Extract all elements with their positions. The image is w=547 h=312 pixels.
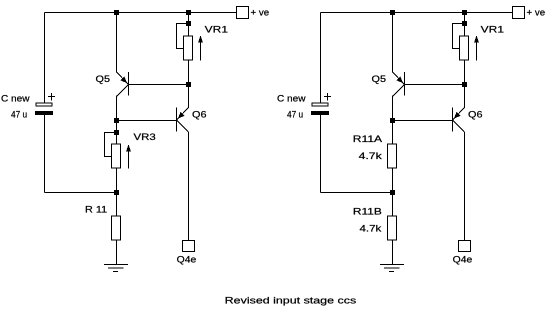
svg-text:C new: C new	[1, 94, 30, 104]
svg-text:R11B: R11B	[353, 207, 382, 217]
wire: Q5 collector down (right)	[392, 96, 394, 145]
wire: node A down to Q6 emitter (left)	[188, 85, 190, 108]
wire: rail down to capacitor Cnew (right)	[320, 13, 322, 103]
wire: capacitor to lower node (left)	[44, 115, 46, 193]
wire: Q6 collector down to Q4e (left)	[188, 132, 190, 240]
wire: +ve supply rail top (left)	[45, 12, 237, 14]
svg-text:R11A: R11A	[353, 134, 382, 144]
node A: base/emitter junction (left)	[186, 82, 191, 87]
wire: Q5 emitter from rail (left)	[116, 13, 118, 73]
svg-text:47 u: 47 u	[11, 109, 27, 119]
svg-text:Q5: Q5	[96, 74, 111, 84]
terminal box Q4e (right)	[453, 241, 473, 265]
node: collector/base junction (left)	[114, 118, 119, 123]
svg-text:Q4e: Q4e	[177, 255, 197, 265]
wire: junction to R11	[116, 193, 118, 217]
ground (right)	[380, 265, 404, 272]
wire: R11A bottom	[392, 169, 394, 193]
wire: Q5 collector down (left)	[116, 96, 118, 145]
svg-text:VR3: VR3	[134, 132, 156, 142]
wire: bottom horizontal to resistor chain (right)	[321, 192, 393, 194]
wire: Q5 emitter from rail (right)	[392, 13, 394, 73]
node: rail/VR1 junction (left)	[186, 10, 191, 15]
transistor Q5 (PNP) (left)	[96, 72, 129, 97]
wire: capacitor to lower node (right)	[320, 115, 322, 193]
transistor Q6 (PNP) (left)	[177, 108, 207, 133]
wire: Q5 base to node A (right)	[405, 84, 465, 86]
wire: Q6 base (left)	[117, 120, 177, 122]
svg-text:Q5: Q5	[372, 74, 387, 84]
transistor Q6 (PNP) (right)	[453, 108, 483, 133]
terminal box Q4e (left)	[177, 241, 197, 265]
potentiometer VR1 (left)	[177, 24, 229, 61]
node: collector/base junction (right)	[390, 118, 395, 123]
wire: Q6 base (right)	[393, 120, 453, 122]
svg-text:Q4e: Q4e	[453, 255, 473, 265]
capacitor Cnew 47u (left)	[1, 93, 55, 119]
resistor R11A 4.7k	[353, 134, 397, 168]
terminal box +ve (right)	[513, 7, 546, 19]
ground (left)	[104, 265, 128, 272]
wire: +ve supply rail top (right)	[321, 12, 513, 14]
wire: VR1 top (right)	[464, 13, 466, 37]
node A: base/emitter junction (right)	[462, 82, 467, 87]
wire: R11 to ground	[116, 240, 118, 265]
wire: rail down to capacitor Cnew (left)	[44, 13, 46, 103]
capacitor Cnew 47u (right)	[277, 93, 331, 119]
svg-text:Revised input stage ccs: Revised input stage ccs	[225, 296, 357, 306]
node: rail/Q5-emitter junction (right)	[390, 10, 395, 15]
svg-text:+ ve: + ve	[527, 8, 546, 18]
svg-text:47 u: 47 u	[287, 109, 303, 119]
node: rail/VR1 junction (right)	[462, 10, 467, 15]
wire: R11B to ground	[392, 240, 394, 265]
node: cap return junction	[114, 190, 119, 195]
node: cap return junction (right)	[390, 190, 395, 195]
svg-text:Q6: Q6	[192, 109, 207, 119]
node: VR1 wiper tie (right)	[462, 21, 467, 26]
svg-text:4.7k: 4.7k	[359, 151, 383, 161]
svg-text:VR1: VR1	[481, 25, 504, 35]
svg-text:4.7k: 4.7k	[360, 224, 382, 234]
wire: node A down to Q6 emitter (right)	[464, 85, 466, 108]
resistor R11	[85, 205, 121, 240]
wire: Q5 base to node A (left)	[129, 84, 189, 86]
wire: bottom horizontal to resistor chain (left)	[45, 192, 117, 194]
svg-text:R 11: R 11	[85, 205, 107, 215]
svg-text:VR1: VR1	[205, 25, 228, 35]
node: VR3 wiper tie	[114, 130, 119, 135]
wire: VR3 bottom	[116, 169, 118, 193]
potentiometer VR1 (right)	[453, 24, 505, 61]
wire: junction to R11B	[392, 193, 394, 217]
node: VR1 wiper tie (left)	[186, 21, 191, 26]
transistor Q5 (PNP) (right)	[372, 72, 405, 97]
svg-text:Q6: Q6	[468, 109, 483, 119]
svg-text:C new: C new	[277, 94, 306, 104]
wire: Q6 collector down to Q4e (right)	[464, 132, 466, 240]
potentiometer VR3	[105, 132, 156, 169]
resistor R11B 4.7k	[353, 207, 397, 240]
wire: VR1 bottom to node A (right)	[464, 60, 466, 85]
svg-text:+ ve: + ve	[251, 8, 270, 18]
wire: VR1 bottom to node A (left)	[188, 60, 190, 85]
terminal box +ve (left)	[237, 7, 270, 19]
wire: VR1 top (left)	[188, 13, 190, 37]
node: rail/Q5-emitter junction (left)	[114, 10, 119, 15]
